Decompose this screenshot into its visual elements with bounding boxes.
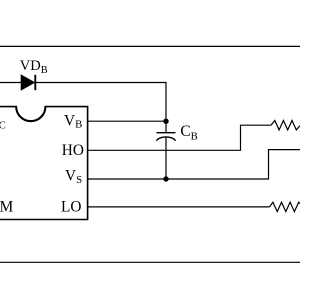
resistor R1 gate HO [271,121,300,130]
wire pin LO run [88,206,270,208]
node VB junction dot [163,119,168,124]
svg-text:COM: COM [0,198,14,215]
node VS junction dot [163,176,168,181]
svg-text:LO: LO [61,198,81,215]
wire bottom COM rail [0,261,300,263]
op-amp U1 driver IC body [0,107,88,220]
capacitor CB [157,121,176,179]
wire diode anode [0,82,22,84]
resistor R2 gate LO [270,202,301,211]
wire top VCC rail [0,45,300,47]
wire diode cathode to bootstrap node [35,83,166,122]
wire pin VB to node [88,120,166,122]
wire pin HO run [88,125,271,150]
wire pin VS run [88,150,300,179]
diode VDB [21,75,35,90]
svg-text:HO: HO [62,142,84,159]
